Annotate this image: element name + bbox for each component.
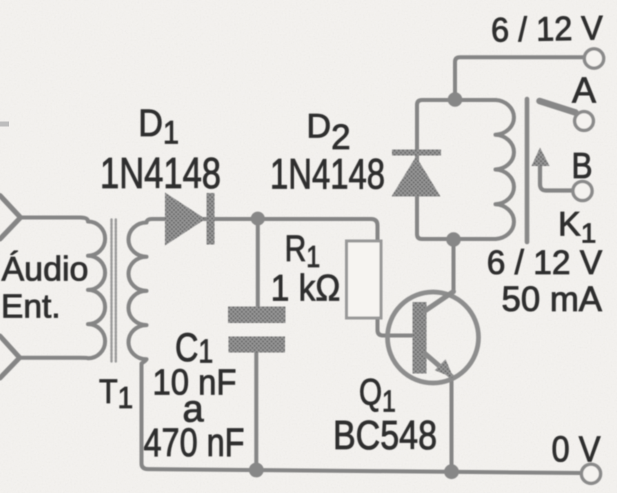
svg-text:1N4148: 1N4148 [270, 151, 385, 199]
svg-text:B: B [572, 145, 593, 186]
svg-text:6 / 12 V: 6 / 12 V [487, 244, 603, 282]
svg-text:Ent.: Ent. [1, 289, 61, 326]
svg-text:Áudio: Áudio [2, 251, 89, 289]
svg-text:6 / 12 V: 6 / 12 V [491, 9, 604, 49]
svg-text:470 nF: 470 nF [144, 421, 245, 465]
svg-text:50 mA: 50 mA [502, 280, 603, 319]
svg-text:BC548: BC548 [333, 412, 437, 458]
svg-text:A: A [572, 70, 596, 111]
svg-text:1N4148: 1N4148 [100, 150, 221, 198]
svg-text:0 V: 0 V [552, 429, 602, 470]
svg-text:1 kΩ: 1 kΩ [271, 268, 341, 309]
